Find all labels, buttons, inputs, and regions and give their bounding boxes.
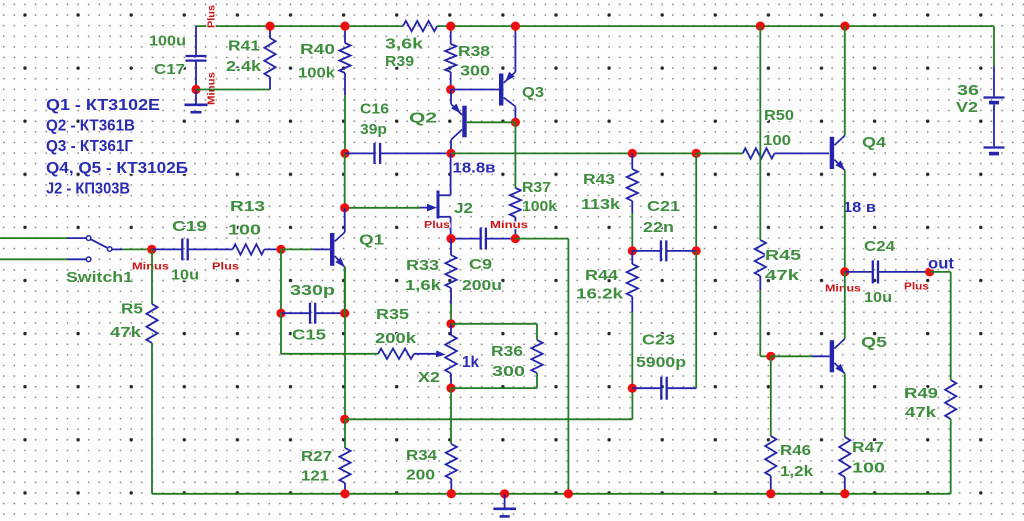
- svg-text:Q2 - КТ361В: Q2 - КТ361В: [46, 118, 135, 135]
- svg-text:Minus: Minus: [207, 72, 218, 105]
- node C9 plus / J2 source: [446, 234, 455, 243]
- node R38 top: [446, 22, 455, 31]
- capacitor C16: [345, 152, 375, 154]
- input wire upper: [0, 237, 67, 239]
- node C15 left: [276, 309, 285, 318]
- svg-text:1,2k: 1,2k: [780, 463, 814, 480]
- svg-text:R49: R49: [904, 385, 938, 402]
- resistor R40: [344, 26, 346, 43]
- svg-text:R37: R37: [522, 179, 551, 196]
- transistor Q5 (NPN): [830, 340, 834, 372]
- node B: Q3 collector / Q2 base: [511, 118, 520, 127]
- wire R40 to C16 node: [344, 95, 346, 153]
- svg-text:out: out: [928, 256, 954, 273]
- svg-text:R47: R47: [852, 439, 884, 456]
- node mid rail R43 top: [628, 149, 637, 158]
- resistor R34: [446, 444, 457, 479]
- transistor Q4 (NPN): [830, 137, 834, 169]
- wire mid rail: [451, 152, 743, 154]
- svg-text:R41: R41: [228, 38, 260, 55]
- wire base node to Q1: [281, 248, 313, 250]
- svg-text:C24: C24: [864, 238, 896, 255]
- node bottom R46: [766, 489, 775, 498]
- wire Q1 collector node up to C16 node: [344, 153, 346, 207]
- svg-text:47k: 47k: [905, 404, 937, 421]
- svg-text:C17: C17: [154, 61, 185, 78]
- wire out to right column: [930, 271, 951, 273]
- svg-text:100u: 100u: [149, 33, 186, 50]
- svg-text:Q1 - КТ3102Е: Q1 - КТ3102Е: [46, 97, 160, 114]
- node C17-minus: [191, 85, 200, 94]
- jfet J2: [437, 191, 440, 219]
- svg-text:Q1: Q1: [359, 232, 384, 249]
- svg-text:J2 - КП303В: J2 - КП303В: [46, 181, 130, 198]
- svg-text:10u: 10u: [171, 267, 199, 284]
- svg-text:300: 300: [460, 63, 490, 80]
- svg-text:36: 36: [957, 82, 979, 99]
- wire Q5 collector up: [844, 272, 846, 339]
- capacitor C17: [186, 55, 207, 57]
- svg-text:R40: R40: [300, 41, 335, 58]
- resistor R33: [450, 239, 452, 255]
- node Q1 emitter junction: [340, 415, 349, 424]
- svg-text:113k: 113k: [581, 196, 621, 213]
- svg-text:Q4: Q4: [862, 134, 887, 151]
- node bottom R47: [840, 489, 849, 498]
- svg-text:18.8в: 18.8в: [453, 160, 496, 177]
- svg-text:47k: 47k: [765, 267, 800, 284]
- wire R45 column down: [759, 26, 761, 240]
- svg-text:Q5: Q5: [861, 334, 887, 351]
- wire R5 to bottom rail: [151, 354, 153, 494]
- node C16 left: [340, 149, 349, 158]
- capacitor C9: [451, 238, 481, 240]
- svg-text:200k: 200k: [375, 330, 417, 347]
- svg-text:C19: C19: [172, 218, 207, 235]
- wire Q1 emitter junction to R27: [344, 419, 346, 448]
- svg-text:Q3 - КТ361Г: Q3 - КТ361Г: [46, 138, 133, 155]
- node bottom R34: [447, 489, 456, 498]
- svg-text:2.4k: 2.4k: [226, 58, 262, 75]
- wire C9 minus to right and down: [515, 238, 568, 240]
- resistor R13: [233, 244, 265, 254]
- svg-text:200u: 200u: [462, 277, 502, 294]
- svg-text:100: 100: [228, 222, 261, 239]
- wire base node down to C15: [280, 249, 282, 313]
- node Q1 collector: [340, 203, 349, 212]
- node C24 minus: [840, 267, 849, 276]
- capacitor C21: [632, 250, 661, 252]
- svg-text:R39: R39: [385, 53, 414, 70]
- wire C17-minus to R41 bottom: [196, 89, 270, 91]
- node A: R38 bottom / Q2 emitter / Q3 base: [446, 85, 455, 94]
- wire R46 column: [770, 356, 772, 436]
- node mid rail C21 right column top: [692, 149, 701, 158]
- node mid rail J2 drain: [446, 149, 455, 158]
- svg-text:22n: 22n: [643, 219, 674, 236]
- svg-text:330p: 330p: [290, 282, 335, 299]
- resistor R50: [743, 148, 775, 158]
- wire Q4 emitter down to C24 node: [844, 170, 846, 272]
- svg-text:Q4, Q5 - КТ3102Б: Q4, Q5 - КТ3102Б: [46, 160, 188, 177]
- transistor list annotation: [46, 97, 188, 198]
- svg-text:R35: R35: [376, 306, 409, 323]
- wire low horizontal: [345, 418, 633, 420]
- svg-text:J2: J2: [454, 200, 473, 217]
- node out: [925, 267, 934, 276]
- svg-text:R5: R5: [121, 301, 143, 318]
- svg-text:Plus: Plus: [424, 220, 450, 231]
- svg-text:C23: C23: [642, 332, 675, 349]
- svg-text:R43: R43: [583, 171, 615, 188]
- input wire lower: [0, 258, 67, 260]
- svg-text:300: 300: [492, 363, 525, 380]
- resistor R46: [765, 436, 776, 476]
- svg-text:Q3: Q3: [522, 84, 544, 101]
- svg-text:C16: C16: [360, 101, 389, 118]
- node R41 top: [265, 22, 274, 31]
- svg-text:R45: R45: [765, 247, 801, 264]
- svg-text:R50: R50: [764, 107, 794, 124]
- wire Q5 emitter down: [844, 374, 846, 437]
- svg-text:Switch1: Switch1: [66, 269, 133, 286]
- node Q1 base: [276, 245, 285, 254]
- resistor R27: [339, 448, 350, 483]
- svg-text:16.2k: 16.2k: [576, 286, 624, 303]
- svg-text:R44: R44: [585, 267, 619, 284]
- resistor R43: [631, 153, 633, 169]
- ground under C17: [195, 90, 197, 105]
- svg-text:100: 100: [763, 132, 791, 149]
- switch Switch1: [86, 236, 91, 241]
- wire Q1 collector node to J2 gate: [345, 207, 420, 209]
- node Q3 emitter top: [511, 22, 520, 31]
- node Q5 base junction: [766, 352, 775, 361]
- svg-text:C9: C9: [469, 256, 492, 273]
- resistor R39 on top rail: [403, 21, 437, 31]
- node C19 left / R5 top: [147, 245, 156, 254]
- bottom rail: [152, 493, 951, 495]
- node C23 left: [628, 384, 637, 393]
- resistor R35: [378, 349, 414, 359]
- resistor R36 parallel loop: [451, 323, 537, 325]
- svg-text:200: 200: [406, 467, 435, 484]
- node top rail Q4 column: [840, 22, 849, 31]
- svg-text:R36: R36: [491, 343, 523, 360]
- svg-text:V2: V2: [956, 99, 978, 116]
- resistor R5: [151, 249, 153, 304]
- node C21 right: [692, 246, 701, 255]
- svg-text:R38: R38: [458, 43, 490, 60]
- svg-text:121: 121: [301, 468, 329, 485]
- svg-text:Plus: Plus: [904, 282, 929, 293]
- resistor R44: [631, 251, 633, 264]
- node C21 left: [628, 246, 637, 255]
- svg-text:Minus: Minus: [490, 220, 528, 231]
- wire C15 right node on emitter column: [344, 267, 346, 314]
- wire node B to Q2 base: [467, 121, 516, 123]
- node X2 top: [446, 319, 455, 328]
- node C15 right: [340, 309, 349, 318]
- ground symbol bottom: [504, 494, 506, 509]
- wire R45 to Q5 base node: [760, 355, 771, 357]
- svg-text:C15: C15: [292, 327, 326, 344]
- resistor R45: [755, 240, 766, 276]
- svg-text:X2: X2: [418, 369, 440, 386]
- wire Q4 collector up to rail: [844, 26, 846, 135]
- svg-text:100k: 100k: [522, 198, 558, 215]
- svg-text:Plus: Plus: [212, 262, 239, 273]
- svg-text:Minus: Minus: [825, 284, 861, 295]
- capacitor C24: [845, 271, 873, 273]
- svg-text:5900p: 5900p: [636, 354, 686, 371]
- wire Q5 base: [771, 355, 812, 357]
- wire node B down to R37: [514, 122, 516, 188]
- wire node A to Q3 base: [451, 89, 499, 91]
- capacitor C15: [281, 312, 310, 314]
- transistor Q3 (PNP): [499, 74, 503, 106]
- wire mid rail to R50: [696, 152, 743, 154]
- capacitor C19: [152, 248, 183, 250]
- potentiometer X2: [450, 324, 452, 335]
- svg-text:3,6k: 3,6k: [385, 36, 424, 53]
- resistor R47: [839, 437, 850, 477]
- resistor R41: [269, 26, 271, 38]
- svg-text:47k: 47k: [110, 324, 142, 341]
- wire X2 bottom down to R34: [450, 388, 452, 444]
- resistor R38: [450, 26, 452, 44]
- wire top supply rail: [196, 25, 403, 27]
- svg-text:R46: R46: [780, 442, 811, 459]
- node X2 bottom: [446, 384, 455, 393]
- resistor R37: [510, 188, 521, 217]
- wire right column down: [695, 153, 697, 251]
- transistor Q2 (PNP mirrored): [462, 106, 466, 138]
- svg-text:R33: R33: [406, 257, 439, 274]
- node R40 top: [340, 22, 349, 31]
- svg-text:Q2: Q2: [409, 110, 437, 127]
- svg-text:10u: 10u: [864, 289, 892, 306]
- svg-text:R13: R13: [230, 198, 265, 215]
- svg-text:Plus: Plus: [207, 5, 218, 28]
- svg-text:R27: R27: [301, 448, 332, 465]
- resistor R49: [945, 380, 956, 419]
- svg-text:39p: 39p: [360, 121, 387, 138]
- svg-text:1k: 1k: [462, 354, 479, 371]
- svg-text:18 в: 18 в: [843, 199, 876, 216]
- svg-text:100: 100: [852, 460, 885, 477]
- svg-text:C21: C21: [647, 198, 680, 215]
- svg-text:Minus: Minus: [132, 262, 169, 273]
- svg-text:R34: R34: [406, 447, 438, 464]
- svg-text:100k: 100k: [298, 65, 336, 82]
- battery V2: [993, 26, 995, 66]
- node bottom ground: [500, 489, 509, 498]
- wire top-left corner down to C17: [195, 26, 197, 56]
- node top rail R45 column: [756, 22, 765, 31]
- node bottom R27: [340, 489, 349, 498]
- node C9 minus / R37 bottom: [511, 234, 520, 243]
- node bottom minus-column: [564, 489, 573, 498]
- capacitor C23: [632, 387, 661, 389]
- svg-text:1,6k: 1,6k: [405, 277, 442, 294]
- wire C15 left down and across to R35: [280, 313, 282, 354]
- transistor Q1 (NPN): [330, 233, 334, 266]
- wire Q1 emitter down: [344, 267, 346, 419]
